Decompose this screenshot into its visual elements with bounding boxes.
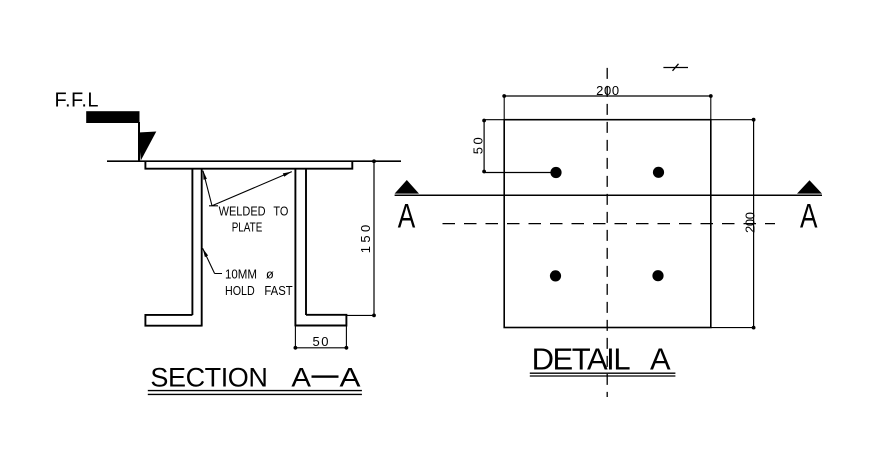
ground line [107, 160, 401, 162]
bolt top-left [550, 167, 561, 178]
left hold fast foot [145, 315, 201, 326]
label WELDED TO PLATE [219, 203, 289, 234]
svg-text:A: A [291, 362, 311, 392]
right hold fast foot [295, 315, 346, 326]
dimension 200 top [502, 83, 712, 120]
leader welded to plate [203, 171, 292, 206]
svg-text:F.F.L: F.F.L [55, 90, 99, 112]
horizontal centerline dashed [443, 223, 776, 225]
title SECTION A-A [150, 362, 360, 392]
section marker right triangle [797, 180, 822, 193]
svg-text:A: A [800, 198, 818, 236]
svg-text:A: A [340, 362, 361, 392]
detail plate square [504, 120, 711, 328]
title SECTION underline [148, 391, 362, 395]
svg-text:A: A [398, 198, 416, 236]
svg-text:50: 50 [313, 334, 329, 349]
svg-text:HOLD: HOLD [225, 283, 255, 298]
plate bottom edge extension line [711, 327, 754, 329]
FFL level marker triangle [138, 132, 156, 161]
svg-text:TO: TO [273, 203, 288, 218]
base plate section outline [145, 161, 352, 169]
north tick mark [663, 64, 688, 71]
foot top extension line [346, 314, 374, 316]
dimension 150 [358, 159, 376, 317]
label F.F.L [55, 90, 99, 112]
dimension 200 right [743, 118, 758, 330]
FFL level marker drop line [138, 122, 140, 161]
dimension 50 foot width [294, 326, 349, 350]
leader hold fast [203, 248, 222, 273]
svg-text:200: 200 [743, 212, 758, 233]
bolt bottom-right [652, 270, 663, 281]
svg-text:50: 50 [471, 137, 486, 154]
bolt bottom-left [550, 270, 561, 281]
svg-text:PLATE: PLATE [232, 219, 263, 234]
svg-text:ø: ø [266, 267, 274, 282]
title DETAIL underline [530, 373, 676, 376]
label A left [398, 198, 416, 236]
plate top edge extension line [484, 119, 753, 121]
svg-text:SECTION: SECTION [150, 362, 268, 392]
right hold fast leg [295, 170, 306, 327]
dimension 50 top left [471, 119, 557, 174]
vertical centerline dashed [606, 68, 608, 397]
svg-text:WELDED: WELDED [219, 203, 266, 218]
section cut line [395, 194, 822, 196]
section marker left triangle [395, 180, 419, 194]
label 10MM HOLD FAST [225, 267, 293, 298]
svg-text:FAST: FAST [264, 283, 292, 298]
svg-text:150: 150 [358, 225, 373, 254]
title DETAIL A [532, 342, 671, 377]
label A right [800, 198, 818, 236]
left hold fast leg [192, 170, 201, 327]
bolt top-right [653, 167, 664, 178]
svg-text:A: A [650, 342, 671, 377]
svg-text:DETAIL: DETAIL [532, 342, 631, 377]
svg-text:10MM: 10MM [225, 267, 257, 282]
FFL level marker bar [86, 111, 139, 123]
